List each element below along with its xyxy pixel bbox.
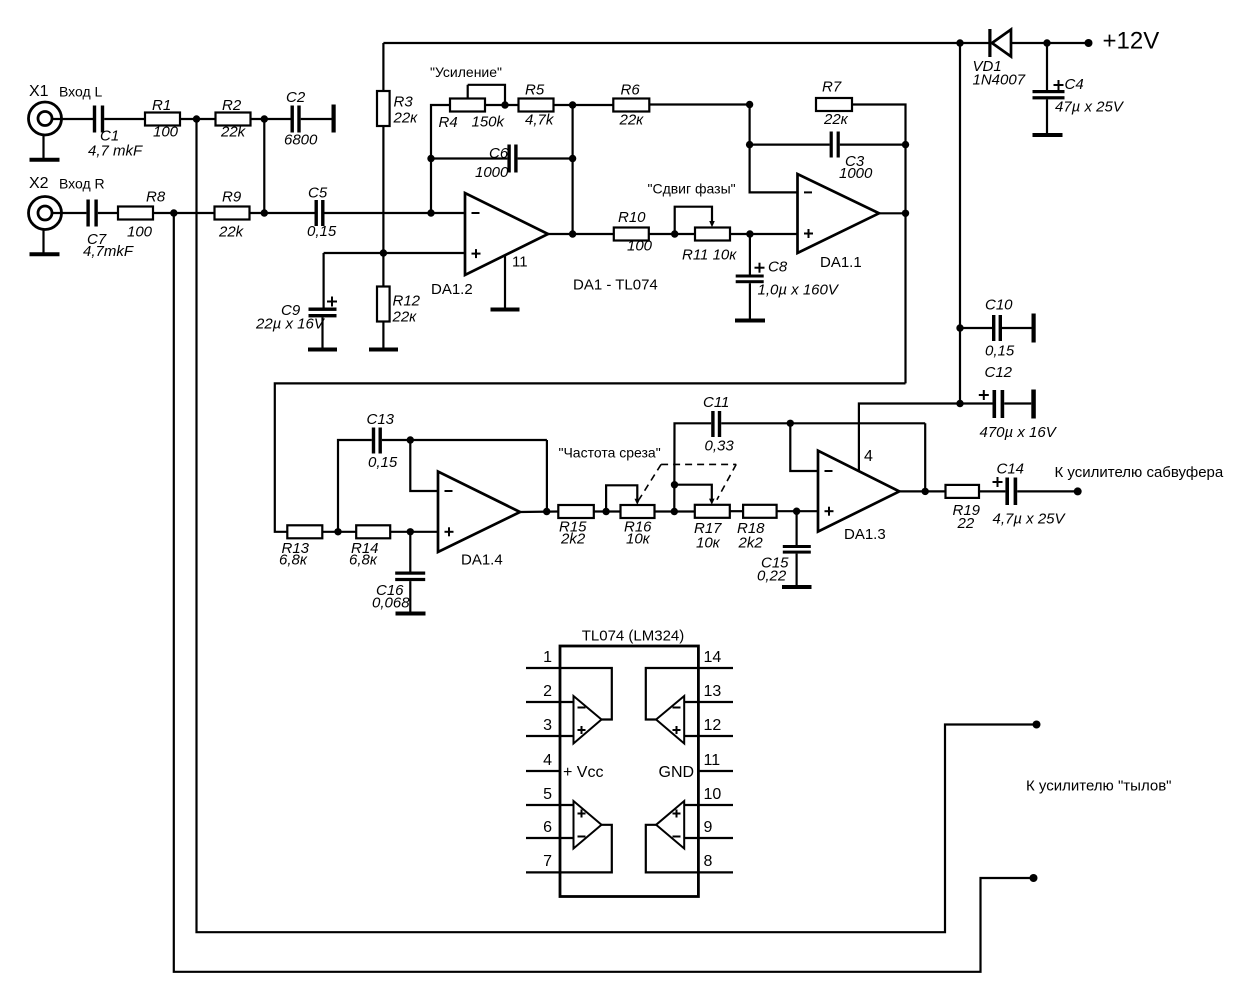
svg-text:22к: 22к — [823, 111, 849, 128]
resistor R5 — [519, 82, 555, 129]
terminal bar after C2 — [332, 105, 336, 133]
node junction C6 right — [569, 155, 576, 162]
resistor R7 — [816, 79, 852, 129]
svg-text:R6: R6 — [621, 82, 641, 99]
svg-text:DA1.2: DA1.2 — [431, 281, 473, 298]
svg-text:9: 9 — [704, 819, 713, 836]
node junction C10 — [956, 324, 963, 331]
op-amp DA1.1 — [798, 174, 880, 271]
node junction DA1.1 output — [902, 210, 909, 217]
svg-text:R10: R10 — [618, 209, 646, 226]
node junction C3 left — [746, 141, 753, 148]
wire — [485, 104, 519, 106]
ground C9 — [308, 348, 337, 352]
svg-text:X2: X2 — [29, 175, 49, 192]
node junction C4 — [1043, 39, 1050, 46]
pin 2 — [526, 683, 574, 702]
node junction R16-R17 — [671, 508, 678, 515]
pin 9 — [684, 819, 733, 838]
svg-text:R1: R1 — [152, 97, 171, 114]
wire feedback vertical to DA1.1 inverting input — [750, 105, 798, 193]
capacitor C14 electrolytic — [993, 461, 1067, 528]
wire — [301, 118, 332, 120]
svg-text:6,8к: 6,8к — [279, 552, 308, 569]
capacitor C16 — [372, 532, 425, 612]
wire — [730, 233, 798, 235]
potentiometer R16 — [606, 485, 654, 547]
wire R3 top — [382, 43, 384, 91]
capacitor C10 — [960, 297, 1032, 360]
pin 12 — [684, 717, 733, 736]
svg-text:0,33: 0,33 — [705, 438, 735, 455]
capacitor C3 — [750, 132, 906, 183]
pin 11 ground stub DA1.2 — [505, 254, 528, 308]
connector X2 — [29, 197, 62, 253]
pin 4 supply wire DA1.3 — [859, 404, 960, 472]
svg-text:Вход L: Вход L — [59, 84, 103, 100]
svg-text:150k: 150k — [472, 114, 506, 131]
svg-text:C11: C11 — [703, 394, 729, 411]
node junction R10-R11 — [671, 230, 678, 237]
wire — [655, 510, 695, 512]
wire DA1.3 output — [899, 490, 945, 492]
terminal bar after C12 — [1031, 390, 1036, 419]
potentiometer R11 — [675, 207, 738, 264]
capacitor C2 — [284, 89, 318, 149]
node junction after R1 — [193, 115, 200, 122]
svg-text:100: 100 — [153, 124, 179, 141]
svg-text:11: 11 — [512, 254, 528, 271]
svg-text:100: 100 — [127, 224, 153, 241]
node junction R17 wiper branch — [671, 481, 678, 488]
resistor R13 — [279, 525, 322, 568]
ground pin 11 — [491, 308, 520, 312]
wire DA1.4 output — [520, 510, 558, 513]
svg-text:DA1.3: DA1.3 — [844, 526, 886, 543]
svg-text:DA1.4: DA1.4 — [461, 552, 503, 569]
svg-text:"Усиление": "Усиление" — [430, 64, 502, 80]
pin 4 — [526, 752, 560, 771]
node junction R11 - DA1.1 + input — [746, 230, 753, 237]
ground X1 — [30, 158, 60, 162]
wire DA1.4 inverting input — [410, 440, 438, 491]
op-amp unit C bottom-left — [560, 801, 612, 872]
wire R12 to ground — [382, 322, 384, 348]
ground C4 — [1033, 133, 1063, 137]
svg-text:13: 13 — [704, 683, 722, 700]
svg-text:4,7k: 4,7k — [525, 112, 555, 129]
svg-text:2: 2 — [543, 683, 552, 700]
svg-text:R12: R12 — [393, 293, 421, 310]
wire DA1.1 output — [879, 212, 906, 214]
pin 8 — [699, 853, 734, 872]
svg-text:GND: GND — [659, 764, 695, 781]
wire — [649, 233, 695, 235]
wire right supply rail — [959, 43, 961, 404]
resistor R18 — [737, 505, 777, 552]
potentiometer R17 — [675, 485, 730, 552]
resistor R6 — [613, 82, 649, 129]
wire — [554, 104, 614, 106]
op-amp DA1.3 — [818, 451, 899, 543]
wire after diode — [1011, 42, 1089, 44]
svg-text:C6: C6 — [489, 145, 509, 162]
ground X2 — [30, 252, 60, 256]
svg-text:TL074 (LM324): TL074 (LM324) — [582, 628, 685, 645]
node junction R2-C2 — [261, 115, 268, 122]
capacitor C8 electrolytic — [736, 234, 840, 319]
wire — [777, 510, 818, 512]
ground C8 — [735, 319, 765, 323]
svg-text:3: 3 — [543, 717, 552, 734]
node junction R5-R6 — [569, 101, 576, 108]
wire R3 bottom to bias node — [382, 126, 384, 287]
wire R5-R6 node down to DA1.2 output — [571, 105, 573, 234]
wire R7 right — [852, 105, 906, 384]
wire — [52, 118, 93, 120]
wire — [322, 531, 356, 533]
resistor R8 — [118, 189, 166, 241]
resistor R10 — [614, 209, 653, 255]
op-amp unit B top-right — [646, 668, 699, 744]
node junction R4-R5 — [501, 101, 508, 108]
svg-text:4,7mkF: 4,7mkF — [83, 243, 134, 260]
pin 1 — [526, 649, 560, 668]
node junction R6-R7 — [746, 101, 753, 108]
node terminal subwoofer out — [1074, 487, 1082, 495]
resistor R3 — [377, 91, 418, 127]
wire R16-R17 node up to C11 — [674, 423, 711, 511]
svg-text:+ Vcc: + Vcc — [563, 764, 603, 781]
wire R6 to feedback node — [649, 103, 749, 105]
node junction R9-C5 — [261, 209, 268, 216]
svg-text:11: 11 — [704, 752, 721, 769]
svg-text:10к: 10к — [696, 535, 721, 552]
wire — [251, 118, 291, 120]
node junction R13-R14 — [334, 528, 341, 535]
svg-text:2k2: 2k2 — [560, 531, 586, 548]
dashed gang left — [639, 464, 661, 499]
svg-text:DA1.1: DA1.1 — [820, 254, 862, 271]
op-amp unit A top-left — [560, 668, 612, 744]
svg-text:R4: R4 — [439, 114, 458, 131]
wire — [594, 510, 621, 512]
svg-text:R5: R5 — [525, 82, 545, 99]
svg-text:R11 10к: R11 10к — [682, 247, 737, 264]
wire — [250, 212, 315, 214]
svg-text:6: 6 — [543, 819, 552, 836]
node junction C5 / R4 / DA1.2 inverting input — [427, 209, 434, 216]
svg-text:14: 14 — [704, 649, 722, 666]
svg-text:10: 10 — [704, 786, 722, 803]
wire — [1017, 490, 1077, 492]
node terminal +12V — [1085, 39, 1093, 47]
resistor R1 — [145, 97, 180, 141]
svg-text:22k: 22k — [218, 224, 245, 241]
svg-text:4: 4 — [864, 448, 873, 465]
svg-text:1000: 1000 — [839, 165, 873, 182]
node junction C3 right — [902, 141, 909, 148]
capacitor C6 — [431, 145, 573, 182]
capacitor C12 electrolytic — [960, 364, 1058, 441]
wire mixing vertical — [263, 119, 265, 213]
node terminal rear R — [1030, 874, 1038, 882]
node bias junction — [380, 249, 387, 256]
svg-text:1,0µ x 160V: 1,0µ x 160V — [758, 282, 840, 299]
node junction R14 - DA1.4 + input — [407, 528, 414, 535]
op-amp DA1.2 — [431, 193, 548, 298]
svg-text:0,15: 0,15 — [307, 223, 337, 240]
wire — [325, 212, 466, 214]
resistor R2 — [216, 97, 251, 141]
node junction C13 / DA1.4 inverting — [407, 436, 414, 443]
svg-text:C13: C13 — [367, 411, 395, 428]
node junction after R8 — [170, 209, 177, 216]
svg-text:1: 1 — [543, 649, 552, 666]
op-amp DA1.4 — [438, 472, 520, 569]
svg-text:Вход R: Вход R — [59, 176, 105, 192]
capacitor C4 electrolytic — [1033, 43, 1125, 133]
node junction C6 left — [427, 155, 434, 162]
svg-text:"Частота среза": "Частота среза" — [559, 445, 661, 461]
pin 6 — [526, 819, 574, 838]
node junction DA1.3 output — [922, 488, 929, 495]
svg-text:К усилителю "тылов": К усилителю "тылов" — [1026, 778, 1172, 795]
svg-text:4,7µ x 25V: 4,7µ x 25V — [993, 511, 1067, 528]
wire — [390, 531, 438, 533]
pin 3 — [526, 717, 574, 736]
svg-text:C4: C4 — [1065, 76, 1084, 93]
dashed gang right — [717, 464, 736, 499]
svg-text:R9: R9 — [222, 189, 242, 206]
wire R4 left — [431, 105, 450, 213]
svg-text:4,7 mkF: 4,7 mkF — [88, 143, 143, 160]
svg-text:10к: 10к — [626, 531, 651, 548]
svg-text:2k2: 2k2 — [738, 535, 764, 552]
svg-text:1N4007: 1N4007 — [973, 72, 1026, 89]
IC body TL074 — [560, 646, 698, 897]
wire — [52, 212, 86, 214]
node junction C12 — [956, 400, 963, 407]
wire C11 row to output — [924, 423, 926, 491]
svg-text:0,15: 0,15 — [368, 454, 398, 471]
svg-text:C14: C14 — [997, 461, 1025, 478]
node junction C11 / DA1.3 inverting — [787, 420, 794, 427]
svg-text:0,22: 0,22 — [757, 568, 787, 585]
pin 11 — [699, 752, 734, 771]
svg-text:0,068: 0,068 — [372, 595, 410, 612]
svg-text:8: 8 — [704, 853, 713, 870]
svg-text:22к: 22к — [393, 110, 419, 127]
svg-text:0,15: 0,15 — [985, 343, 1015, 360]
svg-text:C2: C2 — [286, 89, 306, 106]
svg-text:7: 7 — [543, 853, 552, 870]
op-amp unit D bottom-right — [646, 801, 699, 872]
svg-text:22: 22 — [957, 515, 975, 532]
wire top supply rail — [383, 42, 988, 44]
wire DA1.1 output to second stage — [275, 383, 906, 531]
svg-text:DA1 - TL074: DA1 - TL074 — [573, 277, 658, 294]
svg-text:6800: 6800 — [284, 132, 318, 149]
wire bias row to DA1.2 + input — [324, 252, 465, 254]
wire — [153, 212, 215, 214]
wire L-channel rail down — [197, 119, 1037, 932]
pin 7 — [526, 853, 560, 872]
svg-text:470µ x 16V: 470µ x 16V — [980, 424, 1058, 441]
wire DA1.2 output — [548, 233, 614, 235]
node junction R15-R16 — [602, 508, 609, 515]
terminal bar after C10 — [1032, 314, 1036, 343]
svg-text:C10: C10 — [985, 297, 1013, 314]
wire — [979, 490, 1005, 492]
ground C16 — [396, 612, 426, 616]
wire DA1.3 inverting input — [790, 423, 818, 471]
ground R12 — [369, 348, 398, 352]
svg-text:6,8к: 6,8к — [349, 552, 378, 569]
capacitor C9 electrolytic — [255, 253, 337, 348]
capacitor C7 — [83, 200, 134, 261]
diode VD1 — [973, 29, 1026, 89]
capacitor C1 — [88, 106, 143, 160]
svg-text:К усилителю сабвуфера: К усилителю сабвуфера — [1055, 464, 1224, 481]
node junction R18 - DA1.3 + input — [793, 508, 800, 515]
svg-text:R7: R7 — [822, 79, 842, 96]
svg-text:22k: 22k — [220, 124, 247, 141]
svg-text:R3: R3 — [394, 94, 414, 111]
svg-text:47µ x 25V: 47µ x 25V — [1055, 99, 1125, 116]
svg-text:5: 5 — [543, 786, 552, 803]
wire C13 feedback to output — [546, 440, 548, 512]
pin 13 — [684, 683, 733, 702]
svg-text:100: 100 — [627, 238, 653, 255]
potentiometer R4 — [439, 85, 506, 131]
svg-text:22к: 22к — [619, 112, 645, 129]
wire — [104, 118, 145, 120]
wire — [180, 118, 216, 120]
capacitor C11 — [703, 394, 925, 455]
svg-text:4: 4 — [543, 752, 552, 769]
ground C15 — [782, 585, 812, 589]
svg-text:1000: 1000 — [475, 164, 509, 181]
node junction DA1.4 output — [543, 508, 550, 515]
dashed gang top — [661, 463, 736, 465]
pin 10 — [684, 786, 733, 805]
capacitor C15 — [757, 511, 811, 585]
svg-text:22µ x 16V: 22µ x 16V — [255, 316, 326, 333]
svg-text:22к: 22к — [392, 309, 418, 326]
svg-text:"Сдвиг фазы": "Сдвиг фазы" — [648, 181, 736, 197]
capacitor C5 — [307, 185, 337, 241]
svg-text:C8: C8 — [768, 259, 788, 276]
pin 5 — [526, 786, 574, 805]
resistor R15 — [558, 505, 594, 548]
node junction DA1.2 output — [569, 230, 576, 237]
connector X1 — [29, 102, 62, 158]
resistor R9 — [215, 189, 250, 241]
resistor R12 — [377, 287, 421, 326]
wire — [98, 212, 118, 214]
capacitor C13 — [338, 411, 547, 532]
wire — [730, 510, 743, 512]
pin 14 — [699, 649, 734, 668]
node junction top rail / right supply rail — [956, 39, 963, 46]
svg-text:C5: C5 — [308, 185, 328, 202]
resistor R14 — [349, 525, 390, 568]
svg-text:R2: R2 — [222, 97, 242, 114]
svg-text:R8: R8 — [146, 189, 166, 206]
svg-text:+12V: +12V — [1103, 28, 1160, 55]
resistor R19 — [946, 485, 981, 532]
node terminal rear L — [1033, 721, 1041, 729]
wire R-channel rail down — [174, 213, 1034, 972]
svg-text:C12: C12 — [985, 364, 1013, 381]
svg-text:12: 12 — [704, 717, 722, 734]
svg-text:X1: X1 — [29, 83, 49, 100]
